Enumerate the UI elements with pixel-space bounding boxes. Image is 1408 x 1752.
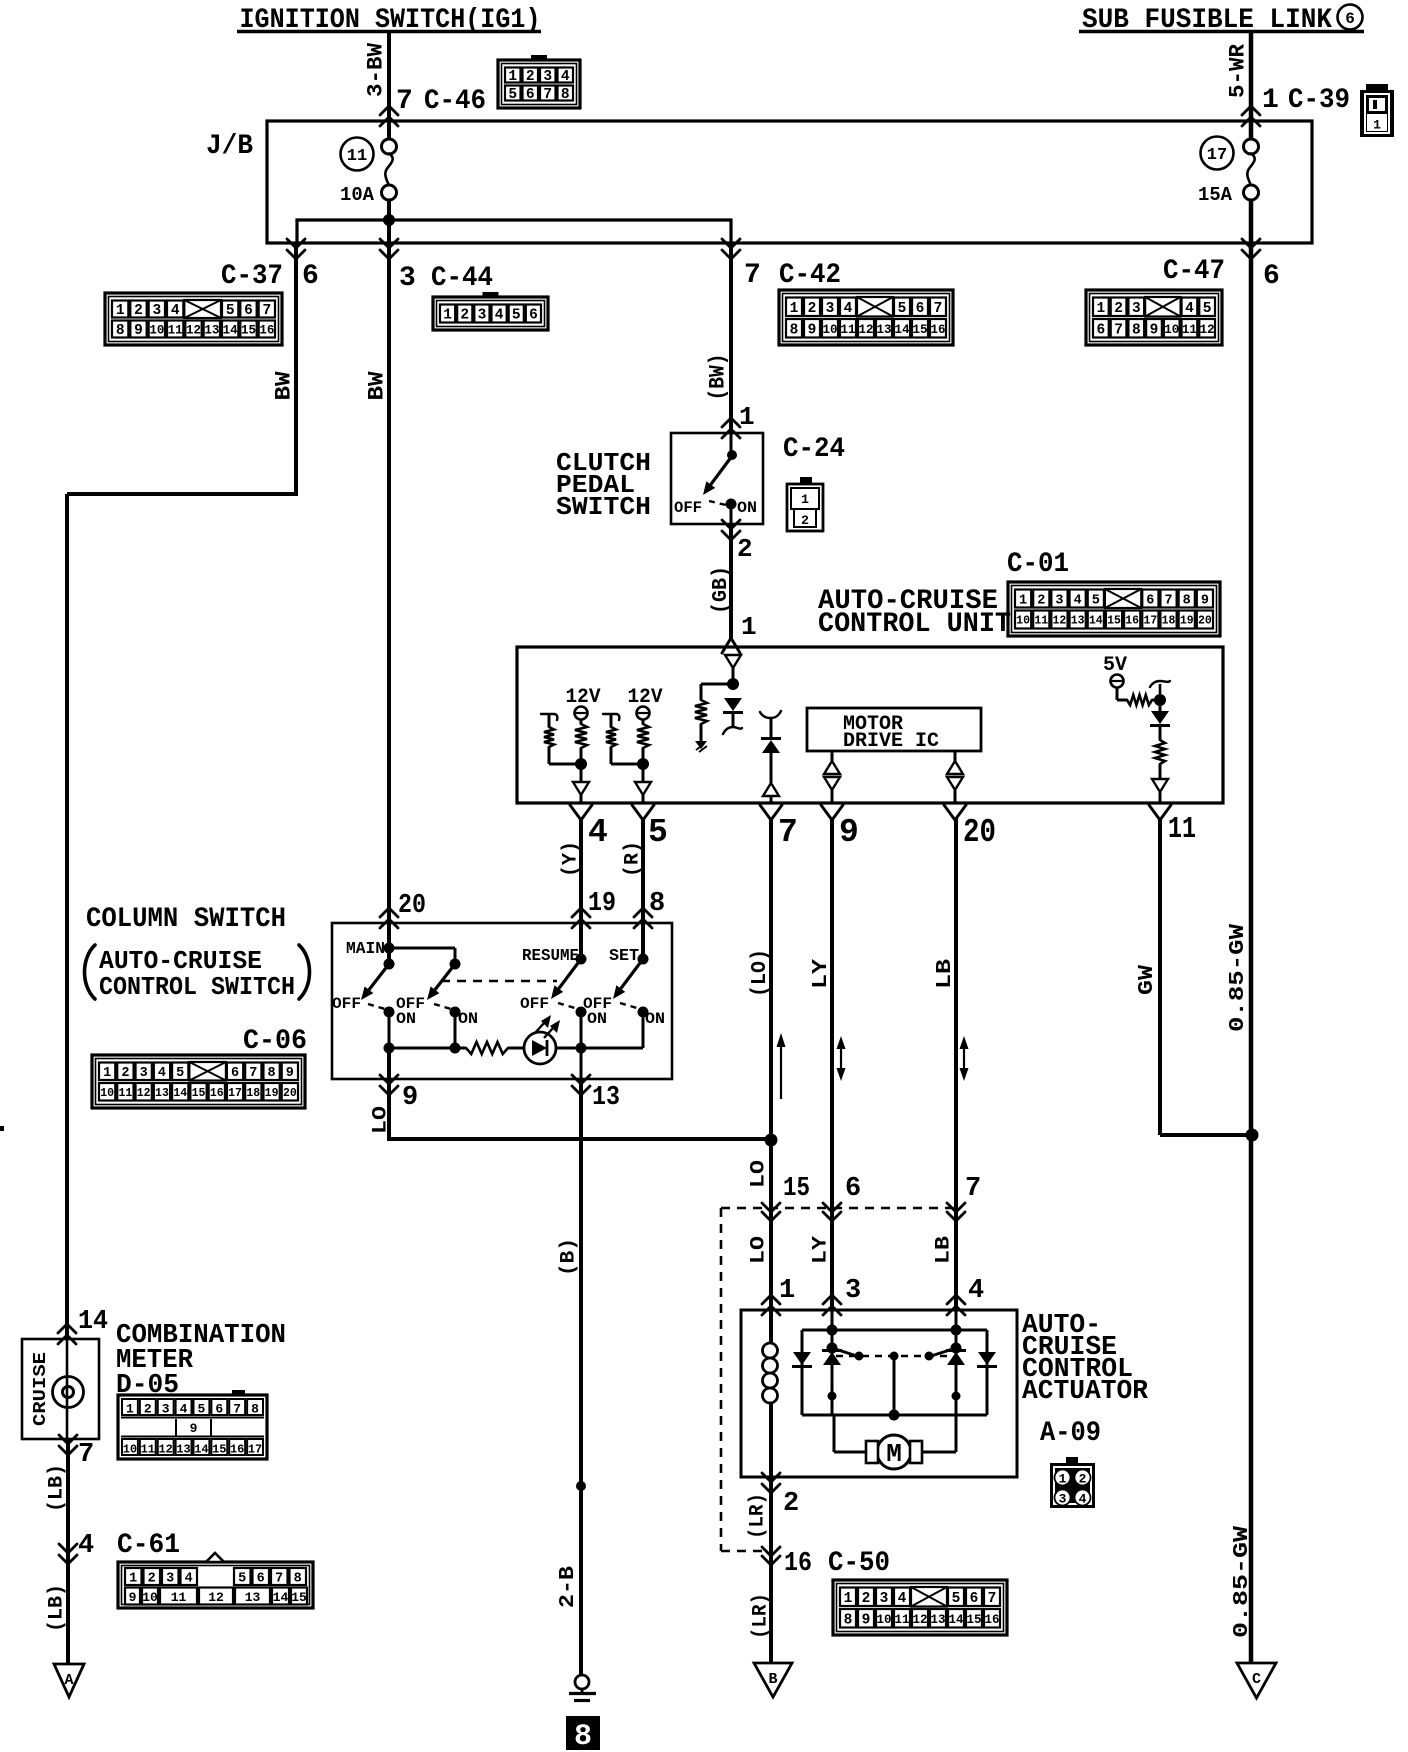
svg-text:6: 6 <box>1263 261 1280 292</box>
svg-text:12: 12 <box>186 324 201 338</box>
label 5-WR <box>1225 43 1250 98</box>
wire LY unit pin9 to actuator <box>830 817 834 1310</box>
auto-cruise control unit box <box>517 647 1223 803</box>
svg-text:CONTROL SWITCH: CONTROL SWITCH <box>99 972 295 1002</box>
splice dot on (B) wire <box>576 1481 586 1491</box>
svg-text:(LR): (LR) <box>747 1493 770 1539</box>
switch SET <box>613 923 649 1048</box>
svg-text:3: 3 <box>1132 301 1141 317</box>
svg-text:8: 8 <box>844 1612 853 1628</box>
wire BW from C-44 to column switch pin 20 <box>387 220 391 923</box>
label RESUME <box>522 947 579 966</box>
svg-text:11: 11 <box>840 323 855 337</box>
svg-text:4: 4 <box>844 301 853 317</box>
svg-text:C-42: C-42 <box>779 260 841 291</box>
svg-text:8: 8 <box>561 87 570 103</box>
fuse 17 15A <box>1198 139 1259 206</box>
svg-text:(LB): (LB) <box>46 1584 69 1632</box>
connector pins 7 C-46 entry <box>380 86 486 126</box>
svg-text:7: 7 <box>1114 322 1123 338</box>
svg-text:ACTUATOR: ACTUATOR <box>1022 1377 1149 1407</box>
svg-text:14: 14 <box>173 1087 187 1100</box>
svg-text:14: 14 <box>78 1307 108 1337</box>
svg-text:1: 1 <box>116 303 125 319</box>
resistor 12V branch B <box>637 720 649 765</box>
wire 3-BW from ignition switch to J/B <box>387 31 391 140</box>
svg-text:DRIVE IC: DRIVE IC <box>843 730 939 753</box>
svg-text:17: 17 <box>1143 615 1157 628</box>
svg-text:ON: ON <box>458 1010 478 1028</box>
svg-text:15: 15 <box>192 1087 206 1100</box>
label (LB) upper <box>46 1464 69 1512</box>
svg-text:10: 10 <box>149 324 164 338</box>
svg-text:14: 14 <box>194 1443 208 1457</box>
fuse 11 10A <box>340 139 397 206</box>
connector C-46 <box>498 55 580 108</box>
svg-text:11: 11 <box>347 147 367 166</box>
svg-text:J/B: J/B <box>206 131 253 162</box>
svg-text:1: 1 <box>790 301 799 317</box>
wire J/B internal bus <box>297 200 731 243</box>
connector pin 1 actuator entry <box>762 1276 795 1315</box>
unit clamp ground arrow <box>695 724 707 752</box>
svg-text:6: 6 <box>845 1174 861 1204</box>
label LO above actuator <box>748 1236 771 1264</box>
svg-text:12: 12 <box>912 1613 927 1627</box>
svg-text:5: 5 <box>898 301 907 317</box>
svg-text:9: 9 <box>286 1066 294 1081</box>
svg-text:6: 6 <box>916 301 925 317</box>
label 3-BW <box>363 42 388 97</box>
svg-text:13: 13 <box>245 1590 261 1605</box>
svg-text:1: 1 <box>779 1276 795 1306</box>
unit pin 9 <box>821 805 859 851</box>
connector pin 15 dashed boundary <box>762 1174 810 1221</box>
actuator common leg <box>893 1356 896 1415</box>
svg-text:LB: LB <box>934 959 957 989</box>
label COMBINATION METER D-05 <box>116 1321 286 1401</box>
label OFF clutch <box>674 499 702 517</box>
contact hook 5V branch <box>1150 681 1170 694</box>
clutch switch blade <box>703 456 732 495</box>
svg-text:7: 7 <box>275 1572 283 1587</box>
svg-text:15A: 15A <box>1198 184 1233 206</box>
svg-text:2: 2 <box>460 308 469 324</box>
svg-text:10: 10 <box>876 1613 891 1627</box>
svg-text:2: 2 <box>1114 301 1123 317</box>
svg-text:CRUISE: CRUISE <box>31 1352 51 1426</box>
lamp CRUISE indicator <box>53 1339 84 1439</box>
svg-text:M: M <box>886 1439 902 1469</box>
diode 5V branch <box>1150 700 1170 726</box>
svg-text:C-47: C-47 <box>1163 256 1225 287</box>
svg-text:3: 3 <box>152 303 161 319</box>
combination meter box <box>22 1339 99 1439</box>
label (R) <box>622 841 645 877</box>
connector C-01 <box>1008 582 1220 636</box>
svg-text:13: 13 <box>204 324 219 338</box>
junction dot 5V branch <box>1154 694 1166 706</box>
svg-text:3-BW: 3-BW <box>363 42 388 97</box>
svg-text:1: 1 <box>844 1591 853 1607</box>
contact hook branch A <box>541 714 557 720</box>
svg-text:7: 7 <box>543 87 552 103</box>
svg-text:7: 7 <box>778 814 798 851</box>
switch MAIN second pole <box>427 959 461 1049</box>
svg-text:14: 14 <box>223 324 239 338</box>
svg-text:4: 4 <box>1074 593 1082 608</box>
label LY above actuator <box>810 1236 833 1264</box>
svg-text:3: 3 <box>845 1276 861 1306</box>
svg-text:7: 7 <box>396 86 413 117</box>
svg-text:1: 1 <box>1059 1472 1067 1487</box>
svg-text:4: 4 <box>561 69 570 85</box>
svg-text:C-50: C-50 <box>828 1548 890 1579</box>
label BW middle <box>364 371 389 401</box>
resistor unit clamp <box>695 700 707 724</box>
power 12V source A <box>566 686 601 720</box>
wire (GB) clutch switch to control unit <box>729 524 733 639</box>
svg-text:18: 18 <box>246 1087 260 1100</box>
svg-text:5: 5 <box>512 308 521 324</box>
switch RESUME <box>551 923 587 1048</box>
svg-text:9: 9 <box>1150 322 1159 338</box>
svg-text:6: 6 <box>529 308 538 324</box>
unit pin 4 output triangle <box>573 768 589 803</box>
connector C-50 <box>833 1580 1007 1635</box>
svg-text:13: 13 <box>1071 615 1085 628</box>
svg-text:4: 4 <box>1079 1492 1087 1507</box>
column switch box <box>332 923 672 1079</box>
svg-text:COLUMN SWITCH: COLUMN SWITCH <box>86 904 286 935</box>
svg-text:2: 2 <box>862 1591 871 1607</box>
connector C-42 <box>779 290 953 345</box>
label 0.85-GW upper <box>1227 924 1250 1032</box>
connector pins 7 C-42 exit <box>722 239 841 291</box>
svg-text:11: 11 <box>168 324 183 338</box>
svg-text:15: 15 <box>291 1590 307 1605</box>
connector pin 4 C-61 crossing <box>59 1530 180 1564</box>
wire (Y) unit pin4 to column switch pin 19 <box>579 817 583 923</box>
switch gang dashed link <box>441 980 557 983</box>
unit pin 11 <box>1149 805 1196 847</box>
svg-text:15: 15 <box>966 1613 981 1627</box>
svg-text:6: 6 <box>1097 322 1106 338</box>
svg-text:8: 8 <box>251 1402 259 1417</box>
label ON second <box>458 1010 478 1028</box>
wire (LB) meter to C-61 <box>66 1439 70 1664</box>
IC MOTOR DRIVE IC box <box>807 708 981 753</box>
svg-text:20: 20 <box>1198 615 1212 628</box>
wire column switch lamp bus <box>389 1047 643 1050</box>
svg-text:1: 1 <box>1019 593 1027 608</box>
junction dot unit clamp <box>727 678 739 690</box>
actuator bridge top rail <box>802 1329 987 1332</box>
fuse number 17 <box>1201 137 1234 170</box>
svg-text:BW: BW <box>271 371 296 401</box>
svg-text:OFF: OFF <box>674 499 702 517</box>
svg-text:6: 6 <box>244 303 253 319</box>
wire BW from C-37 to combination meter <box>67 243 298 1339</box>
svg-text:16: 16 <box>784 1549 812 1579</box>
svg-text:C-01: C-01 <box>1007 549 1069 580</box>
svg-text:17: 17 <box>248 1443 262 1457</box>
node SUB FUSIBLE LINK 6 <box>1079 5 1364 37</box>
wire 0.85-GW sub fusible link to triangle C <box>1249 200 1254 1663</box>
label LB <box>934 959 957 989</box>
ground symbol <box>569 1675 596 1701</box>
label 2-B <box>557 1566 580 1608</box>
svg-text:2: 2 <box>1079 1472 1087 1487</box>
fuse number 11 <box>341 138 374 171</box>
wire (LO) unit pin7 to actuator <box>769 817 773 1310</box>
diode actuator inner-right <box>946 1351 966 1366</box>
actuator bridge bottom rail <box>802 1414 987 1417</box>
svg-text:(LB): (LB) <box>46 1464 69 1512</box>
resistor sub branch A <box>544 714 581 764</box>
junction dots actuator rails <box>827 1325 962 1421</box>
svg-text:11: 11 <box>894 1613 909 1627</box>
wire actuator pin4 branch <box>955 1310 958 1452</box>
svg-text:14: 14 <box>1089 615 1103 628</box>
svg-text:16: 16 <box>930 323 945 337</box>
diode actuator outer-right <box>977 1352 997 1367</box>
resistor sub branch B <box>606 714 643 764</box>
svg-text:6: 6 <box>1345 10 1355 28</box>
wire (B) column switch pin13 to ground <box>579 1079 583 1675</box>
svg-text:B: B <box>768 1671 777 1688</box>
svg-text:C-44: C-44 <box>431 263 493 294</box>
flow arrow LB wire <box>960 1036 969 1081</box>
svg-text:3: 3 <box>399 263 416 294</box>
svg-text:11: 11 <box>1182 323 1197 337</box>
svg-text:2: 2 <box>144 1402 152 1417</box>
svg-text:BW: BW <box>364 371 389 401</box>
connector pin 2 actuator exit <box>762 1473 799 1519</box>
svg-text:10A: 10A <box>340 184 375 206</box>
unit pin 7 input triangle <box>763 783 779 803</box>
wire (LR) actuator to triangle B <box>769 1477 773 1663</box>
svg-text:1: 1 <box>1262 85 1279 116</box>
svg-text:5: 5 <box>226 303 235 319</box>
svg-text:9: 9 <box>862 1612 871 1628</box>
svg-text:9: 9 <box>808 322 817 338</box>
label (LO) <box>749 949 772 997</box>
svg-text:C-46: C-46 <box>424 86 486 117</box>
svg-text:3: 3 <box>478 308 487 324</box>
resistor lamp bus <box>466 1042 508 1054</box>
connector C-24 <box>787 477 823 531</box>
flow arrow LY wire <box>837 1036 846 1081</box>
svg-text:2: 2 <box>121 1066 129 1081</box>
svg-text:6: 6 <box>257 1572 265 1587</box>
svg-text:6: 6 <box>215 1402 223 1417</box>
connector pins C-47 6 exit <box>1163 239 1280 292</box>
svg-text:1: 1 <box>508 69 517 85</box>
svg-text:1: 1 <box>801 492 809 507</box>
clutch switch ON contact <box>726 499 737 525</box>
svg-text:(GB): (GB) <box>710 566 733 614</box>
offpage triangle B <box>754 1663 792 1697</box>
svg-text:C-39: C-39 <box>1288 85 1350 116</box>
svg-text:12: 12 <box>208 1590 224 1605</box>
svg-text:C-61: C-61 <box>117 1530 180 1561</box>
svg-text:10: 10 <box>142 1590 158 1605</box>
svg-text:4: 4 <box>180 1402 188 1417</box>
connector pin 14 entry <box>58 1307 108 1344</box>
resistor 12V branch A <box>575 720 587 765</box>
power 5V source <box>1103 654 1127 688</box>
connector pin 7 exit meter <box>59 1435 94 1470</box>
label J/B <box>206 131 253 162</box>
IC pin 9 triangles <box>824 751 840 803</box>
label ON resume <box>587 1010 607 1028</box>
label A-09 <box>1040 1418 1101 1449</box>
svg-text:11: 11 <box>1034 615 1048 628</box>
svg-text:4: 4 <box>171 303 180 319</box>
label OFF second <box>396 995 425 1013</box>
svg-text:13: 13 <box>155 1087 169 1100</box>
svg-text:5: 5 <box>1092 593 1100 608</box>
svg-text:19: 19 <box>1180 615 1194 628</box>
svg-text:4: 4 <box>898 1591 907 1607</box>
svg-text:LY: LY <box>810 1236 833 1264</box>
svg-text:12: 12 <box>137 1087 151 1100</box>
unit pin 5 <box>632 805 668 851</box>
label OFF resume <box>520 995 549 1013</box>
connector pin 19 entry <box>572 889 616 928</box>
connector pin 1 clutch switch entry <box>722 402 755 438</box>
svg-text:11: 11 <box>171 1590 187 1605</box>
svg-text:RESUME: RESUME <box>522 947 579 966</box>
svg-text:OFF: OFF <box>332 995 361 1013</box>
label OFF set <box>583 995 612 1013</box>
wire column switch pin13 exit <box>580 1048 583 1079</box>
actuator bridge right rail <box>986 1330 989 1415</box>
svg-text:15: 15 <box>241 324 256 338</box>
svg-text:0.85-GW: 0.85-GW <box>1231 1526 1254 1638</box>
svg-text:12: 12 <box>858 323 873 337</box>
label (BW) <box>705 354 730 401</box>
unit clamp hook contact <box>723 712 742 734</box>
svg-text:C-06: C-06 <box>243 1026 307 1057</box>
svg-text:16: 16 <box>230 1443 244 1457</box>
svg-text:16: 16 <box>210 1087 224 1100</box>
svg-text:10: 10 <box>100 1087 114 1100</box>
svg-text:2: 2 <box>1037 593 1045 608</box>
svg-text:3: 3 <box>1059 1492 1067 1507</box>
svg-text:9: 9 <box>1201 593 1209 608</box>
connector pin 2 clutch switch exit <box>722 520 753 564</box>
actuator switch blades <box>832 1348 956 1361</box>
svg-text:3: 3 <box>1055 593 1063 608</box>
svg-text:LY: LY <box>810 959 833 989</box>
svg-text:4: 4 <box>588 814 608 851</box>
connector pin 1 control unit entry <box>722 612 757 653</box>
svg-text:4: 4 <box>185 1572 193 1587</box>
flow arrow LO wire <box>777 1033 786 1099</box>
connector C-61 <box>118 1553 313 1608</box>
diode pin 7 branch <box>761 718 781 783</box>
svg-text:17: 17 <box>1207 146 1227 165</box>
label LY <box>810 959 833 989</box>
svg-text:7: 7 <box>934 301 943 317</box>
svg-text:10: 10 <box>1164 323 1179 337</box>
junction dot LO bus <box>765 1134 778 1147</box>
dashed harness boundary <box>721 1208 956 1551</box>
unit pin 7 <box>760 805 798 851</box>
svg-text:5: 5 <box>176 1066 184 1081</box>
svg-text:8: 8 <box>790 322 799 338</box>
svg-text:(BW): (BW) <box>705 354 730 401</box>
label (B) <box>558 1238 581 1276</box>
svg-text:A: A <box>64 1672 73 1689</box>
wire GW unit pin11 to 0.85-GW junction <box>1160 817 1252 1135</box>
LED cruise indicator <box>524 1015 560 1064</box>
svg-text:ON: ON <box>737 499 757 517</box>
svg-text:4: 4 <box>495 308 504 324</box>
svg-text:CONTROL UNIT: CONTROL UNIT <box>818 609 1011 640</box>
label (GB) <box>710 566 733 614</box>
connector pin 6 dashed boundary <box>823 1174 861 1221</box>
svg-text:OFF: OFF <box>583 995 612 1013</box>
connector D-05 <box>118 1390 267 1459</box>
connector pin 1 C-39 entry <box>1242 85 1350 126</box>
label COLUMN SWITCH <box>86 904 286 935</box>
IC pin 20 triangles <box>947 751 963 803</box>
auto-cruise control actuator box <box>741 1310 1017 1477</box>
label LO below pin9 <box>370 1106 393 1134</box>
svg-text:(B): (B) <box>558 1238 581 1276</box>
label ON clutch <box>737 499 757 517</box>
stray mark left edge <box>0 1126 4 1131</box>
unit pin 5 output triangle <box>635 768 651 803</box>
svg-text:9: 9 <box>134 323 143 339</box>
wire unit pin1 internal <box>732 668 735 684</box>
connector C-37 <box>105 293 282 345</box>
svg-text:1: 1 <box>126 1402 134 1417</box>
actuator solenoid coil <box>763 1310 778 1477</box>
svg-text:1: 1 <box>129 1572 137 1587</box>
svg-text:ON: ON <box>645 1010 665 1028</box>
wire unit clamp branch <box>701 684 733 700</box>
svg-text:13: 13 <box>930 1613 945 1627</box>
label C-06 <box>243 1026 307 1057</box>
unit pin 11 output triangle <box>1152 779 1168 803</box>
svg-text:7: 7 <box>78 1440 94 1470</box>
svg-text:7: 7 <box>249 1066 257 1081</box>
svg-text:20: 20 <box>398 891 426 921</box>
clutch switch contact top <box>727 433 737 460</box>
svg-text:7: 7 <box>1164 593 1172 608</box>
svg-text:10: 10 <box>1016 615 1030 628</box>
svg-text:14: 14 <box>948 1613 964 1627</box>
unit pin 20 <box>944 805 996 851</box>
connector pin 7 dashed boundary <box>947 1174 981 1221</box>
svg-text:6: 6 <box>231 1066 239 1081</box>
svg-text:SET: SET <box>609 947 639 966</box>
svg-text:SWITCH: SWITCH <box>556 492 651 522</box>
svg-text:(LO): (LO) <box>749 949 772 997</box>
motor M actuator <box>834 1415 956 1469</box>
svg-text:MAIN: MAIN <box>346 940 385 959</box>
svg-text:20: 20 <box>963 814 996 851</box>
svg-text:LO: LO <box>370 1106 393 1134</box>
svg-text:2-B: 2-B <box>557 1566 580 1608</box>
svg-text:12: 12 <box>1200 323 1215 337</box>
connector A-09 <box>1050 1457 1095 1508</box>
svg-text:1: 1 <box>741 612 757 642</box>
